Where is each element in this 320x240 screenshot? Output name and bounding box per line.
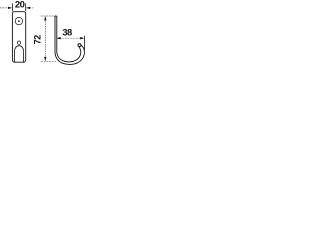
dimension 38 left arrow (56, 37, 60, 39)
screw hole center dot (18, 20, 20, 22)
side view inner contour (bar right edge + hook inner curve) (57, 16, 81, 62)
dimension 38 right arrow (80, 37, 84, 39)
dimension 38 line (57, 37, 83, 39)
hook arm left edge (front view) (14, 51, 16, 62)
hook ball tip (front view) (17, 41, 20, 44)
dimension 20 left extension line (11, 3, 13, 11)
dimension 72 bottom extension line (41, 60, 56, 62)
dimension 20 right arrow (26, 7, 34, 9)
dimension 72 top arrow (44, 16, 46, 20)
svg-text:20: 20 (15, 0, 25, 11)
dimension 72 bottom arrow (44, 57, 46, 61)
dimension 72 top extension line (41, 15, 57, 17)
side view outer contour (bar left edge + hook outer curve) (55, 16, 84, 64)
hook arm dome (front view) (15, 46, 24, 51)
svg-text:72: 72 (33, 35, 43, 45)
dimension 38 right extension line (84, 36, 86, 50)
dimension 20 right extension line (25, 3, 27, 11)
hook arm right edge (front view) (23, 51, 25, 62)
dimension 20 left arrow (0, 7, 12, 9)
svg-text:38: 38 (62, 26, 72, 37)
background (0, 0, 88, 66)
side view backplate top edge (55, 15, 57, 17)
dimension 72 line (44, 17, 46, 60)
front view plate outline (12, 12, 25, 63)
side view hook ball tip (78, 44, 81, 47)
screw hole circle (15, 17, 22, 24)
